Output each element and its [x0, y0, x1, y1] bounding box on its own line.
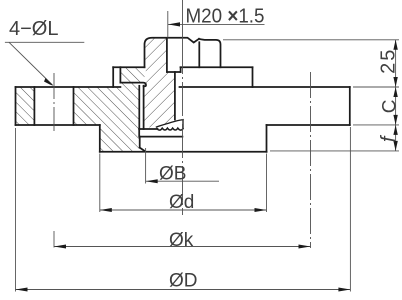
bolt hole left [34, 87, 73, 125]
arrows at plate top right [393, 77, 397, 97]
label M20x1.5 [186, 6, 265, 28]
label ØD [169, 271, 198, 292]
svg-text:Ød: Ød [169, 192, 194, 213]
arrow 25 top [393, 40, 397, 50]
label Øk [169, 230, 194, 251]
label 4-ØL [9, 18, 58, 40]
boss recess section hatch [120, 67, 144, 82]
tube walls [139, 86, 143, 137]
label Ød [169, 192, 194, 213]
flange plate [16, 87, 350, 125]
svg-text:ØD: ØD [169, 271, 198, 292]
svg-text:C: C [379, 100, 400, 114]
svg-text:Øk: Øk [169, 230, 194, 251]
arrow M20 [168, 22, 180, 26]
dimension Øk [54, 231, 311, 248]
label ØB [159, 164, 186, 185]
main axis centerline [182, 0, 184, 215]
label C [379, 100, 400, 114]
arrows Øk [54, 245, 311, 249]
dimension ØB [146, 148, 219, 184]
svg-text:25: 25 [378, 48, 400, 74]
boss recess seat with lip [120, 83, 146, 87]
flange plate left section hatch [16, 87, 35, 125]
svg-text:f: f [378, 134, 400, 142]
arrows ØD [16, 288, 351, 292]
dimension Ød [100, 154, 267, 213]
dimension ØD [16, 127, 351, 292]
svg-text:M20 ×1.5: M20 ×1.5 [186, 6, 265, 28]
label f [378, 134, 400, 142]
incomplete thread detail [156, 120, 183, 131]
arrows Ød [100, 208, 267, 212]
svg-text:4−ØL: 4−ØL [9, 18, 58, 40]
leader 4-ØL [5, 42, 84, 85]
arrow f bottom [393, 141, 397, 151]
union nut + socket section hatch [144, 38, 175, 128]
socket bore edge [174, 72, 176, 120]
arrows at plate bottom right [393, 115, 397, 135]
socket collar bottom + bore chamfer [139, 129, 182, 152]
right side dimension line 25/C/f [223, 40, 399, 151]
bolt hole centerline right [310, 72, 312, 248]
hub [100, 125, 267, 152]
label 25 [378, 48, 400, 74]
M20x1.5 dimension [168, 11, 265, 38]
hex plug head [145, 38, 253, 72]
boss [113, 67, 252, 87]
bolt hole centerline left [53, 73, 55, 131]
svg-text:ØB: ØB [159, 164, 186, 185]
arrow leader 4-ØL [44, 78, 53, 86]
flange plate mid + hub section hatch [74, 83, 140, 152]
arrow ØB [146, 179, 158, 183]
